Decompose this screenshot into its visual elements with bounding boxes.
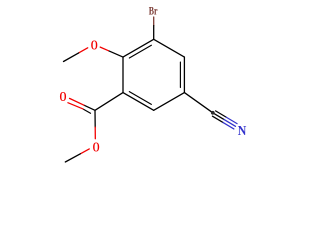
bond O(methoxy)-CH3 red half [79, 48, 88, 53]
C3=C2 double bond inner line [129, 45, 151, 58]
bond O(ester)-CH3 red half [80, 149, 89, 154]
C=O double bond main line red half [70, 98, 84, 105]
C=O double bond second line red half [68, 103, 83, 109]
svg-text:O: O [91, 36, 98, 53]
nitrile triple bond upper line black half [216, 111, 227, 117]
ring edge C6=C1 (bottom-left side, double bond outer line) [123, 93, 154, 111]
bond C1-C(carbonyl) [95, 93, 123, 111]
C4=C5 double bond inner line [179, 62, 181, 88]
C6=C1 double bond inner line [129, 92, 151, 105]
nitrile carbon atom dot [211, 111, 215, 115]
ring edge C3-C4 (top-right side) [154, 39, 185, 57]
nitrile triple bond lower line blue half [223, 123, 234, 129]
svg-text:O: O [60, 88, 67, 105]
bond C(carbonyl)-O(ester) red half [94, 127, 96, 139]
C=O double bond second line black half [83, 109, 91, 113]
bond C(carbonyl)-O(ester) black half [94, 110, 96, 127]
svg-text:O: O [93, 138, 100, 155]
bond O(ester)-CH3 black half [65, 154, 80, 162]
nitrile triple bond upper line blue half [226, 117, 237, 123]
bond C3-Br bromine-colored half [153, 17, 155, 26]
bond C2-O(methoxy) black half [108, 51, 123, 57]
bond C5-C(nitrile) [184, 93, 212, 113]
svg-text:Br: Br [149, 5, 158, 18]
ring edge C6-C5 (bottom-right side) [154, 93, 185, 111]
nitrile triple bond center line black half [213, 113, 224, 120]
bond C3-Br black half [153, 26, 155, 40]
C=O double bond main line black half [84, 105, 95, 110]
bond O(methoxy)-CH3 black half [64, 53, 79, 62]
ring edge C2-C1 (left side) [122, 57, 124, 93]
ring edge C4=C5 (right side, double bond outer line) [183, 57, 185, 93]
svg-text:N: N [238, 122, 247, 138]
nitrile triple bond lower line black half [212, 116, 223, 122]
bond C2-O(methoxy) red half [100, 47, 108, 51]
ring edge C3=C2 (top-left side, double bond outer line) [123, 39, 154, 57]
nitrile triple bond center line blue half [224, 120, 235, 127]
